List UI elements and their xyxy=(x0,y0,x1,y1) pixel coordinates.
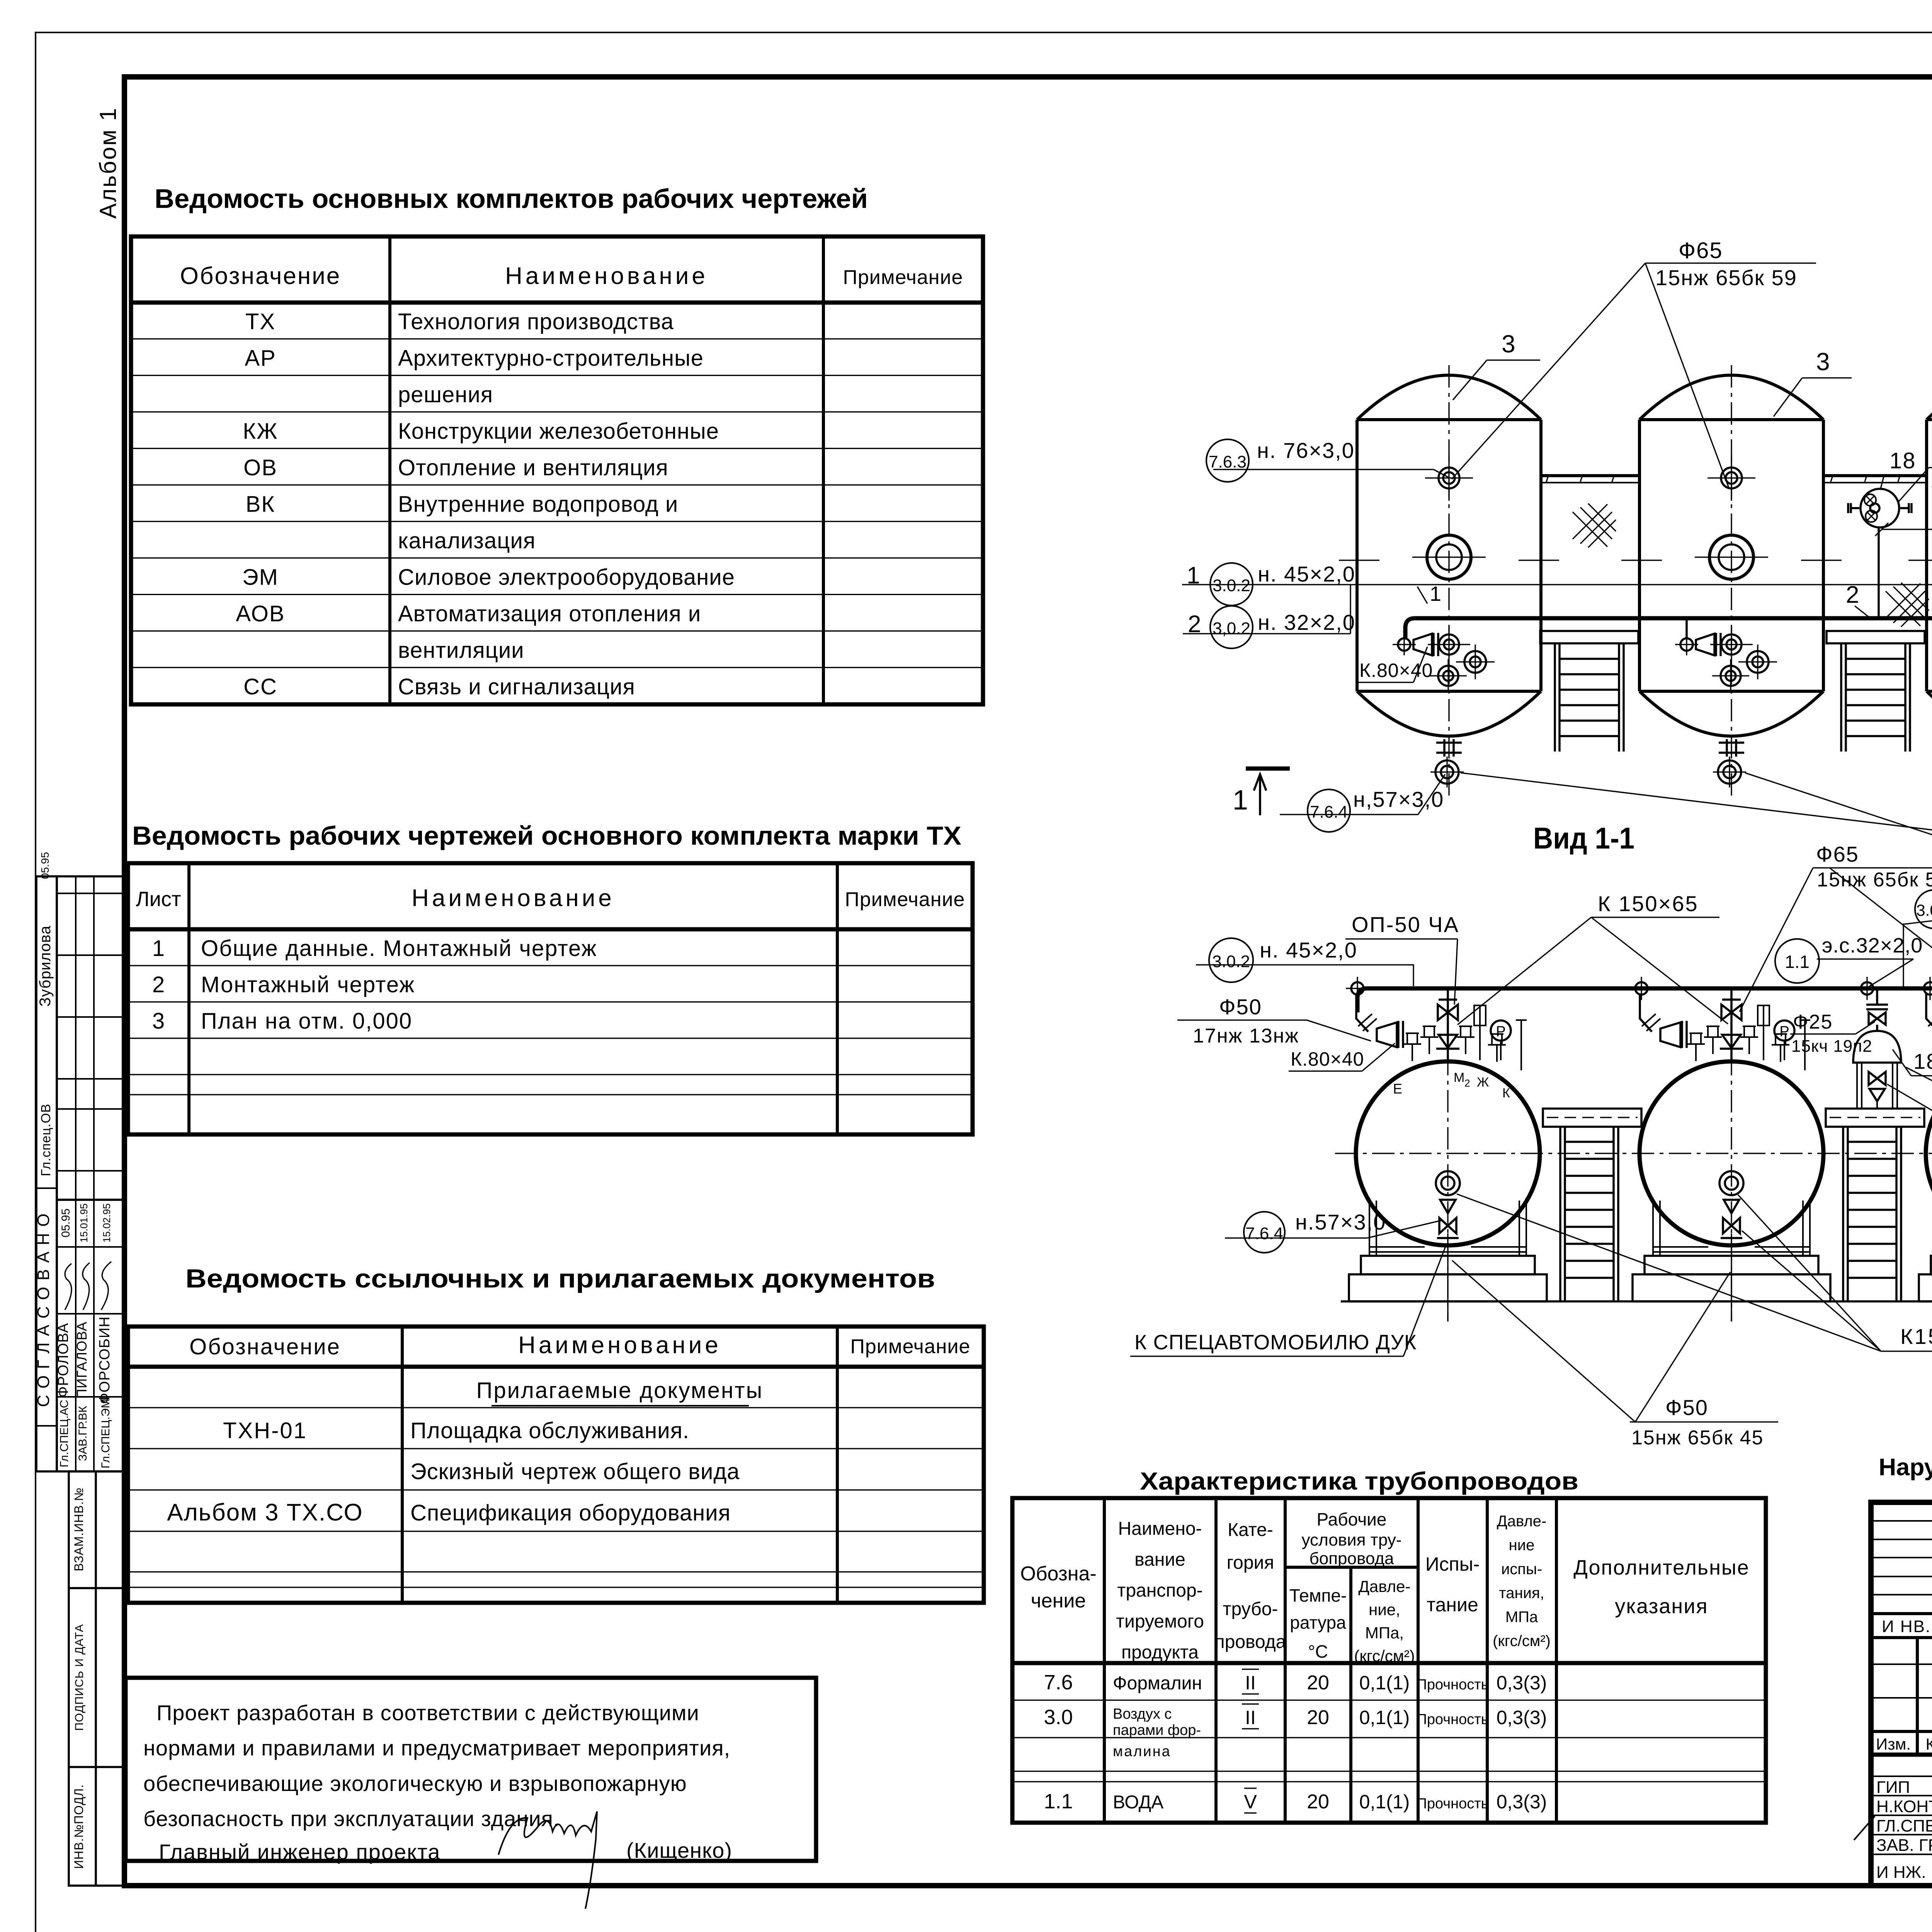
stair tower top view 2 xyxy=(1827,631,1925,752)
svg-text:7.6: 7.6 xyxy=(1044,1671,1073,1694)
spheres horizontal axis xyxy=(1335,1153,1932,1154)
svg-text:3: 3 xyxy=(152,1009,165,1034)
svg-text:н. 76×3,0: н. 76×3,0 xyxy=(1257,438,1355,463)
svg-text:парами фор-: парами фор- xyxy=(1113,1722,1201,1738)
svg-text:3.0.2: 3.0.2 xyxy=(1213,576,1250,595)
svg-text:0,1(1): 0,1(1) xyxy=(1359,1672,1410,1694)
svg-text:АОВ: АОВ xyxy=(236,601,285,626)
svg-text:0,3(3): 0,3(3) xyxy=(1497,1672,1547,1694)
svg-text:Прочность: Прочность xyxy=(1417,1677,1489,1693)
svg-text:1.1: 1.1 xyxy=(1044,1790,1073,1813)
svg-text:Проект разработан в соответств: Проект разработан в соответствии с дейст… xyxy=(156,1701,699,1725)
svg-text:тируемого: тируемого xyxy=(1116,1611,1204,1632)
svg-text:тание: тание xyxy=(1427,1594,1478,1616)
svg-text:3: 3 xyxy=(1502,330,1515,358)
svg-text:ОП-50 ЧА: ОП-50 ЧА xyxy=(1352,912,1459,937)
svg-text:Технология производства: Технология производства xyxy=(398,309,674,334)
svg-text:указания: указания xyxy=(1615,1595,1708,1618)
svg-text:1: 1 xyxy=(1233,785,1248,816)
svg-text:Силовое электрооборудование: Силовое электрооборудование xyxy=(398,565,735,590)
pipe 1 line xyxy=(1182,584,1932,585)
svg-text:V: V xyxy=(1244,1791,1257,1813)
svg-text:0,3(3): 0,3(3) xyxy=(1497,1707,1547,1728)
stair tower bottom view 1 xyxy=(1543,1109,1641,1301)
table 3 row lines xyxy=(128,1407,984,1408)
label 1.1 эс32 xyxy=(1775,939,1819,983)
dimension 1500 xyxy=(1882,529,1932,530)
svg-text:н. 45×2,0: н. 45×2,0 xyxy=(1258,562,1355,586)
svg-text:Воздух с: Воздух с xyxy=(1113,1706,1172,1722)
svg-text:Прилагаемые документы: Прилагаемые документы xyxy=(476,1378,764,1403)
svg-text:2: 2 xyxy=(1464,1077,1470,1089)
svg-text:ЗАВ.ГР.ВК: ЗАВ.ГР.ВК xyxy=(77,1406,89,1461)
svg-text:1: 1 xyxy=(1187,562,1200,589)
svg-text:Автоматизация отопления и: Автоматизация отопления и xyxy=(398,601,701,626)
pipe unions bottom view xyxy=(1346,977,1369,1000)
svg-text:Гл.спец.ОВ: Гл.спец.ОВ xyxy=(39,1104,53,1176)
svg-text:ратура: ратура xyxy=(1290,1612,1346,1633)
svg-text:Ф25: Ф25 xyxy=(1793,1011,1833,1033)
svg-text:Испы-: Испы- xyxy=(1425,1553,1480,1575)
svg-text:тания,: тания, xyxy=(1499,1585,1544,1602)
svg-text:Альбом 3 ТХ.СО: Альбом 3 ТХ.СО xyxy=(167,1499,363,1526)
svg-text:Прочность: Прочность xyxy=(1417,1711,1489,1728)
svg-text:ЗАВ. ГР.: ЗАВ. ГР. xyxy=(1876,1836,1932,1855)
svg-text:провода: провода xyxy=(1215,1632,1286,1652)
svg-text:Кате-: Кате- xyxy=(1228,1520,1273,1540)
chief engineer signature xyxy=(498,1811,597,1909)
walkway between tank2 and tank3 xyxy=(1823,474,1927,477)
svg-text:7.6.3: 7.6.3 xyxy=(1209,452,1247,471)
svg-text:ПИГАЛОВА: ПИГАЛОВА xyxy=(74,1321,90,1399)
lower stamp boxes xyxy=(69,1471,124,1886)
svg-text:Наружная установка аппаратов (: Наружная установка аппаратов (поз.3) xyxy=(1879,1454,1932,1481)
pipe 2 header xyxy=(1405,618,1932,638)
svg-text:20: 20 xyxy=(1307,1791,1329,1813)
svg-text:Зубрилова: Зубрилова xyxy=(37,925,54,1007)
svg-text:II: II xyxy=(1245,1672,1256,1694)
svg-text:Ф65: Ф65 xyxy=(1816,842,1859,866)
valve 18 xyxy=(1861,489,1899,527)
svg-text:ФРОЛОВА: ФРОЛОВА xyxy=(55,1323,71,1397)
svg-text:15.01.95: 15.01.95 xyxy=(78,1203,90,1242)
svg-text:15.02.95: 15.02.95 xyxy=(101,1203,112,1242)
pipe header bottom view xyxy=(1357,988,1932,1012)
svg-text:Обозначение: Обозначение xyxy=(189,1334,341,1359)
svg-text:Площадка обслуживания.: Площадка обслуживания. xyxy=(410,1418,689,1443)
table 1 row lines xyxy=(131,338,983,339)
svg-text:20: 20 xyxy=(1307,1706,1329,1729)
left stamp соглас column xyxy=(36,876,57,1471)
title block middle grid xyxy=(1916,1638,1919,1755)
title block frame xyxy=(1871,1502,1932,1886)
table 3 frame xyxy=(128,1327,984,1603)
svg-text:(кгс/см²): (кгс/см²) xyxy=(1354,1647,1415,1665)
svg-text:обеспечивающие экологическую: обеспечивающие экологическую и взрывопож… xyxy=(143,1771,687,1796)
sphere tank 1 xyxy=(1349,988,1547,1321)
svg-text:ВК: ВК xyxy=(246,492,275,517)
svg-text:вание: вание xyxy=(1134,1549,1185,1570)
hatch symbol 2 xyxy=(1886,583,1929,627)
svg-text:Ф65: Ф65 xyxy=(1679,238,1723,263)
svg-text:Е: Е xyxy=(1393,1081,1402,1097)
svg-text:Н.КОНТР.: Н.КОНТР. xyxy=(1876,1797,1932,1816)
valve 18 riser xyxy=(1878,527,1880,618)
svg-text:Наименование: Наименование xyxy=(518,1332,721,1359)
leader f65 to tank2 xyxy=(1645,263,1729,488)
svg-text:Формалин: Формалин xyxy=(1113,1673,1202,1694)
svg-text:н. 32×2,0: н. 32×2,0 xyxy=(1258,610,1355,634)
label 3.0.2 bottom xyxy=(1209,938,1253,982)
svg-text:1.1: 1.1 xyxy=(1785,952,1810,972)
leader fan from tank bottoms to f50 label xyxy=(1461,773,1932,865)
svg-text:(кгс/см²): (кгс/см²) xyxy=(1493,1633,1551,1650)
svg-text:Конструкции железобетонные: Конструкции железобетонные xyxy=(398,419,719,444)
svg-text:К: К xyxy=(1502,1086,1510,1100)
svg-text:Прочность: Прочность xyxy=(1417,1796,1489,1812)
svg-text:вентиляции: вентиляции xyxy=(398,638,524,663)
label 3.0.3 xyxy=(1915,890,1932,929)
svg-text:И НВ. №: И НВ. № xyxy=(1882,1617,1932,1636)
svg-text:С О Г Л А С О В А Н О: С О Г Л А С О В А Н О xyxy=(34,1213,53,1407)
svg-text:05.95: 05.95 xyxy=(39,852,51,879)
svg-text:Рабочие: Рабочие xyxy=(1317,1509,1387,1529)
table 2 frame xyxy=(128,863,973,1134)
svg-text:17нж 13нж: 17нж 13нж xyxy=(1193,1025,1299,1047)
svg-text:20: 20 xyxy=(1307,1672,1329,1694)
svg-text:15кч 19п2: 15кч 19п2 xyxy=(1791,1037,1872,1056)
left stamp agreement grid xyxy=(57,876,124,1200)
svg-text:15кч19п2: 15кч19п2 xyxy=(1930,471,1932,492)
pipe riser tank2 xyxy=(1685,618,1688,638)
svg-text:18: 18 xyxy=(1913,1049,1932,1073)
stair tower bottom view 2 xyxy=(1826,1109,1924,1301)
label 7.6.4 bottom view xyxy=(1244,1212,1285,1253)
svg-text:Характеристика трубопроводов: Характеристика трубопроводов xyxy=(1140,1467,1578,1495)
pipe table frame xyxy=(1012,1498,1766,1823)
svg-text:3.0.3: 3.0.3 xyxy=(1916,901,1932,919)
svg-text:ФОРСОБИН: ФОРСОБИН xyxy=(97,1316,113,1404)
label 7.6.3 xyxy=(1206,439,1249,482)
svg-text:ЭМ: ЭМ xyxy=(242,565,279,590)
svg-text:СС: СС xyxy=(243,674,277,699)
hatch symbol 1 xyxy=(1573,503,1616,548)
svg-text:гория: гория xyxy=(1227,1553,1274,1573)
svg-text:II: II xyxy=(1245,1707,1256,1728)
tank 3 pos.3 middle xyxy=(1621,365,1842,796)
tank 3 pos.3 right xyxy=(1908,365,1932,796)
svg-text:ние,: ние, xyxy=(1369,1600,1400,1619)
riser н32 to label 3.0.3 xyxy=(1903,923,1904,988)
leader f65 to tank1 xyxy=(1452,263,1645,479)
stair tower top view 1 xyxy=(1540,631,1638,752)
svg-text:Вид 1-1: Вид 1-1 xyxy=(1533,821,1634,855)
svg-text:2: 2 xyxy=(1846,582,1859,608)
pipe table row lines xyxy=(1012,1699,1766,1701)
svg-text:М: М xyxy=(1454,1070,1464,1085)
svg-text:(Кищенко): (Кищенко) xyxy=(626,1838,732,1862)
svg-text:н,57×3,0: н,57×3,0 xyxy=(1353,787,1444,811)
svg-text:К 150×65: К 150×65 xyxy=(1598,891,1699,916)
svg-text:К150×50: К150×50 xyxy=(1900,1324,1932,1349)
svg-text:Ж: Ж xyxy=(1477,1075,1489,1090)
svg-text:н.57×3,0: н.57×3,0 xyxy=(1295,1210,1386,1234)
svg-text:05.95: 05.95 xyxy=(60,1208,72,1237)
svg-text:чение: чение xyxy=(1031,1590,1086,1612)
stand стойка 18 xyxy=(1876,988,1878,1005)
svg-text:МПа,: МПа, xyxy=(1365,1624,1404,1642)
svg-text:испы-: испы- xyxy=(1501,1561,1542,1578)
walkway between tank1 and tank2 xyxy=(1541,474,1639,477)
svg-text:15нж 65бк 45: 15нж 65бк 45 xyxy=(1631,1427,1764,1449)
svg-text:Ведомость основных комплектов: Ведомость основных комплектов рабочих че… xyxy=(155,184,868,214)
svg-text:КЖ: КЖ xyxy=(243,419,278,444)
svg-text:ВЗАМ.ИНВ.№: ВЗАМ.ИНВ.№ xyxy=(72,1487,86,1571)
svg-text:н. 45×2,0: н. 45×2,0 xyxy=(1260,938,1357,962)
svg-text:3.0.2: 3.0.2 xyxy=(1212,952,1250,971)
svg-text:Внутренние водопровод и: Внутренние водопровод и xyxy=(398,492,678,517)
svg-text:Ведомость ссылочных и прилаг: Ведомость ссылочных и прилагаемых докуме… xyxy=(185,1264,935,1293)
svg-text:0,1(1): 0,1(1) xyxy=(1359,1707,1410,1728)
svg-text:3,0.2: 3,0.2 xyxy=(1213,619,1250,638)
svg-text:7.6.4: 7.6.4 xyxy=(1245,1224,1283,1243)
svg-text:°С: °С xyxy=(1308,1641,1328,1662)
svg-text:18: 18 xyxy=(1889,448,1916,473)
svg-text:Гл.СПЕЦ.ЭМ: Гл.СПЕЦ.ЭМ xyxy=(99,1399,112,1469)
svg-text:нормами и правилами и предусма: нормами и правилами и предусматривает ме… xyxy=(143,1736,730,1760)
svg-text:Ведомость рабочих чертежей осн: Ведомость рабочих чертежей основного ком… xyxy=(132,821,961,850)
svg-text:2: 2 xyxy=(152,972,165,997)
svg-text:К.80×40: К.80×40 xyxy=(1291,1048,1364,1070)
svg-text:ГЛ.СПЕЦ.: ГЛ.СПЕЦ. xyxy=(1876,1816,1932,1835)
svg-text:Эскизный чертеж общего вида: Эскизный чертеж общего вида xyxy=(410,1459,740,1484)
svg-text:7.6.4: 7.6.4 xyxy=(1310,803,1348,821)
svg-text:Наимено-: Наимено- xyxy=(1118,1519,1202,1539)
svg-text:Ф50: Ф50 xyxy=(1665,1395,1708,1420)
svg-text:Обозначение: Обозначение xyxy=(180,263,341,289)
svg-text:МПа: МПа xyxy=(1505,1609,1538,1626)
svg-text:ВОДА: ВОДА xyxy=(1113,1792,1163,1813)
svg-text:Темпе-: Темпе- xyxy=(1289,1585,1347,1605)
svg-text:АР: АР xyxy=(245,346,276,371)
svg-text:Альбом 1: Альбом 1 xyxy=(95,107,121,219)
sphere tank 2 xyxy=(1633,988,1830,1321)
svg-text:Связь и сигнализация: Связь и сигнализация xyxy=(398,674,635,699)
svg-text:3: 3 xyxy=(1816,348,1830,376)
svg-text:Дополнительные: Дополнительные xyxy=(1573,1556,1749,1579)
section mark left xyxy=(1246,767,1290,771)
svg-text:решения: решения xyxy=(398,382,493,407)
svg-text:Примечание: Примечание xyxy=(843,266,963,289)
svg-text:Давле-: Давле- xyxy=(1497,1513,1547,1530)
svg-text:Изм.: Изм. xyxy=(1876,1735,1911,1753)
tank 3 pos.3 left xyxy=(1339,365,1559,796)
svg-text:Общие данные. Монтажный черте: Общие данные. Монтажный чертеж xyxy=(201,936,597,961)
svg-text:0,3(3): 0,3(3) xyxy=(1497,1791,1547,1813)
sphere tank 3 xyxy=(1919,988,1932,1321)
table 1 frame xyxy=(131,236,983,704)
svg-text:Лист: Лист xyxy=(136,888,181,911)
svg-text:канализация: канализация xyxy=(398,528,536,553)
svg-text:ИНВ.№ПОДЛ.: ИНВ.№ПОДЛ. xyxy=(72,1784,86,1869)
svg-text:ОВ: ОВ xyxy=(243,455,277,480)
note block frame xyxy=(126,1678,816,1861)
svg-text:безопасность при эксплуатаци: безопасность при эксплуатации здания. xyxy=(143,1806,560,1831)
svg-text:ТХ: ТХ xyxy=(245,309,276,334)
svg-text:Наименование: Наименование xyxy=(412,885,615,912)
svg-text:ТХН-01: ТХН-01 xyxy=(223,1418,307,1443)
svg-text:Кол.: Кол. xyxy=(1925,1735,1932,1753)
svg-text:условия тру-: условия тру- xyxy=(1302,1531,1402,1549)
svg-text:Примечание: Примечание xyxy=(845,888,965,911)
svg-text:Монтажный чертеж: Монтажный чертеж xyxy=(201,972,415,997)
svg-text:И НЖ.: И НЖ. xyxy=(1876,1863,1926,1882)
svg-text:Ф50: Ф50 xyxy=(1219,995,1262,1019)
svg-text:Наименование: Наименование xyxy=(505,263,708,289)
svg-text:малина: малина xyxy=(1113,1743,1171,1760)
signature squiggles left stamp xyxy=(65,1264,71,1310)
svg-text:Архитектурно-строительные: Архитектурно-строительные xyxy=(398,346,704,371)
svg-text:трубо-: трубо- xyxy=(1223,1599,1278,1619)
svg-text:продукта: продукта xyxy=(1121,1642,1199,1663)
label 7.6.4 bottom left xyxy=(1308,789,1350,832)
svg-text:К СПЕЦАВТОМОБИЛЮ ДУК: К СПЕЦАВТОМОБИЛЮ ДУК xyxy=(1134,1331,1417,1354)
svg-text:Обозна-: Обозна- xyxy=(1020,1563,1096,1585)
svg-text:ПОДПИСЬ И ДАТА: ПОДПИСЬ И ДАТА xyxy=(73,1624,86,1731)
svg-text:0,1(1): 0,1(1) xyxy=(1359,1791,1410,1813)
svg-text:Примечание: Примечание xyxy=(850,1335,971,1358)
svg-text:транспор-: транспор- xyxy=(1117,1580,1202,1601)
svg-text:Отопление и вентиляция: Отопление и вентиляция xyxy=(398,455,668,480)
svg-text:К.80×40: К.80×40 xyxy=(1359,660,1433,681)
svg-text:ние: ние xyxy=(1509,1537,1535,1554)
svg-text:1: 1 xyxy=(152,936,165,961)
svg-text:План на отм. 0,000: План на отм. 0,000 xyxy=(201,1009,412,1034)
svg-text:Давле-: Давле- xyxy=(1358,1577,1410,1595)
left stamp date/sign/name rows xyxy=(57,1199,124,1201)
svg-text:Спецификация оборудования: Спецификация оборудования xyxy=(410,1500,731,1526)
svg-text:Главный инженер проекта: Главный инженер проекта xyxy=(159,1840,440,1864)
svg-text:15нж 65бк 59: 15нж 65бк 59 xyxy=(1655,265,1797,290)
svg-text:э.с.32×2,0: э.с.32×2,0 xyxy=(1822,934,1923,957)
svg-text:Гл.СПЕЦ.АС: Гл.СПЕЦ.АС xyxy=(58,1400,71,1467)
svg-text:ГИП: ГИП xyxy=(1876,1778,1910,1797)
check slash xyxy=(1854,1816,1875,1840)
svg-text:бопровода: бопровода xyxy=(1310,1549,1394,1568)
table 2 row lines xyxy=(128,965,973,966)
ground line xyxy=(1341,1300,1932,1303)
svg-text:1: 1 xyxy=(1430,582,1441,605)
svg-text:3.0: 3.0 xyxy=(1044,1706,1073,1729)
